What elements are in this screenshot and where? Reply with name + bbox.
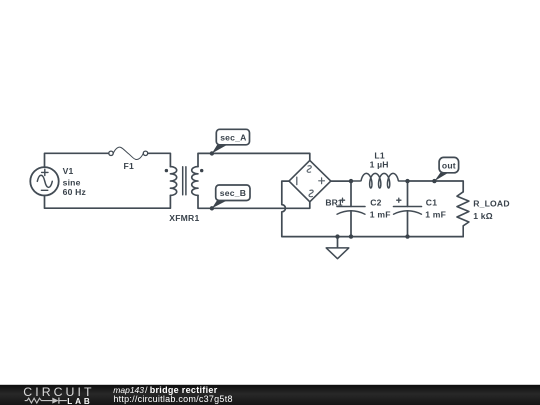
transformer XFMR1 [165,167,204,196]
wire V1 bottom lead [45,195,171,208]
junction C2 bottom [349,234,353,238]
flag sec_B [212,185,250,208]
flag sec_A [212,129,250,153]
wire secondary top to bridge [198,153,310,166]
svg-text:sec_A: sec_A [220,132,246,142]
svg-text:http://circuitlab.com/c37g5t8: http://circuitlab.com/c37g5t8 [113,394,232,404]
label L1 value [370,151,389,170]
junction C2 top [349,179,353,183]
junction C1 top [405,179,409,183]
svg-text:C1: C1 [426,198,437,208]
junction node sec_A [210,151,214,155]
wire bridge minus to bottom rail with hop [282,181,463,237]
wire fuse to transformer primary [148,153,171,166]
svg-text:sine: sine [63,177,81,187]
wire secondary bottom to bridge [198,195,310,208]
label F1 [124,161,134,171]
label C2 value [370,198,391,220]
svg-text:1 kΩ: 1 kΩ [473,211,493,221]
svg-text:F1: F1 [124,161,134,171]
svg-text:R_LOAD: R_LOAD [473,199,510,209]
capacitor C1 [394,181,422,237]
svg-text:BR1: BR1 [325,198,342,208]
logo CIRCUIT LAB [23,385,94,405]
text out [442,161,456,171]
label BR1 [325,198,342,208]
wire bridge plus to L1 [331,180,352,182]
label V1 value [63,166,86,197]
svg-text:1 mF: 1 mF [425,209,446,219]
junction C1 bottom [405,234,409,238]
svg-text:sec_B: sec_B [220,188,246,198]
junction node sec_B [210,206,214,210]
junction node out [432,179,436,183]
capacitor C2 [337,181,365,237]
ground [326,237,349,259]
svg-text:1 µH: 1 µH [370,160,389,170]
footer bar [0,385,540,405]
wire L1 to resistor [406,181,463,192]
svg-text:1 mF: 1 mF [370,209,391,219]
wire V1 top lead to fuse [45,153,109,167]
svg-text:out: out [442,161,456,171]
voltage source V1 [30,167,58,195]
label R_LOAD value [473,199,510,221]
svg-text:60 Hz: 60 Hz [63,187,86,197]
resistor R_LOAD [457,192,469,237]
footer text [113,385,232,404]
svg-text:V1: V1 [63,166,74,176]
junction ground [335,234,339,238]
fuse F1 [109,147,148,159]
flag out [434,157,458,181]
svg-text:LAB: LAB [67,397,92,405]
inductor L1 [351,173,408,188]
label XFMR1 [169,213,199,223]
bridge rectifier BR1 [289,160,331,201]
svg-text:C2: C2 [370,198,381,208]
text sec_A [220,132,246,142]
label C1 value [425,198,446,220]
svg-text:XFMR1: XFMR1 [169,213,199,223]
text sec_B [220,188,246,198]
